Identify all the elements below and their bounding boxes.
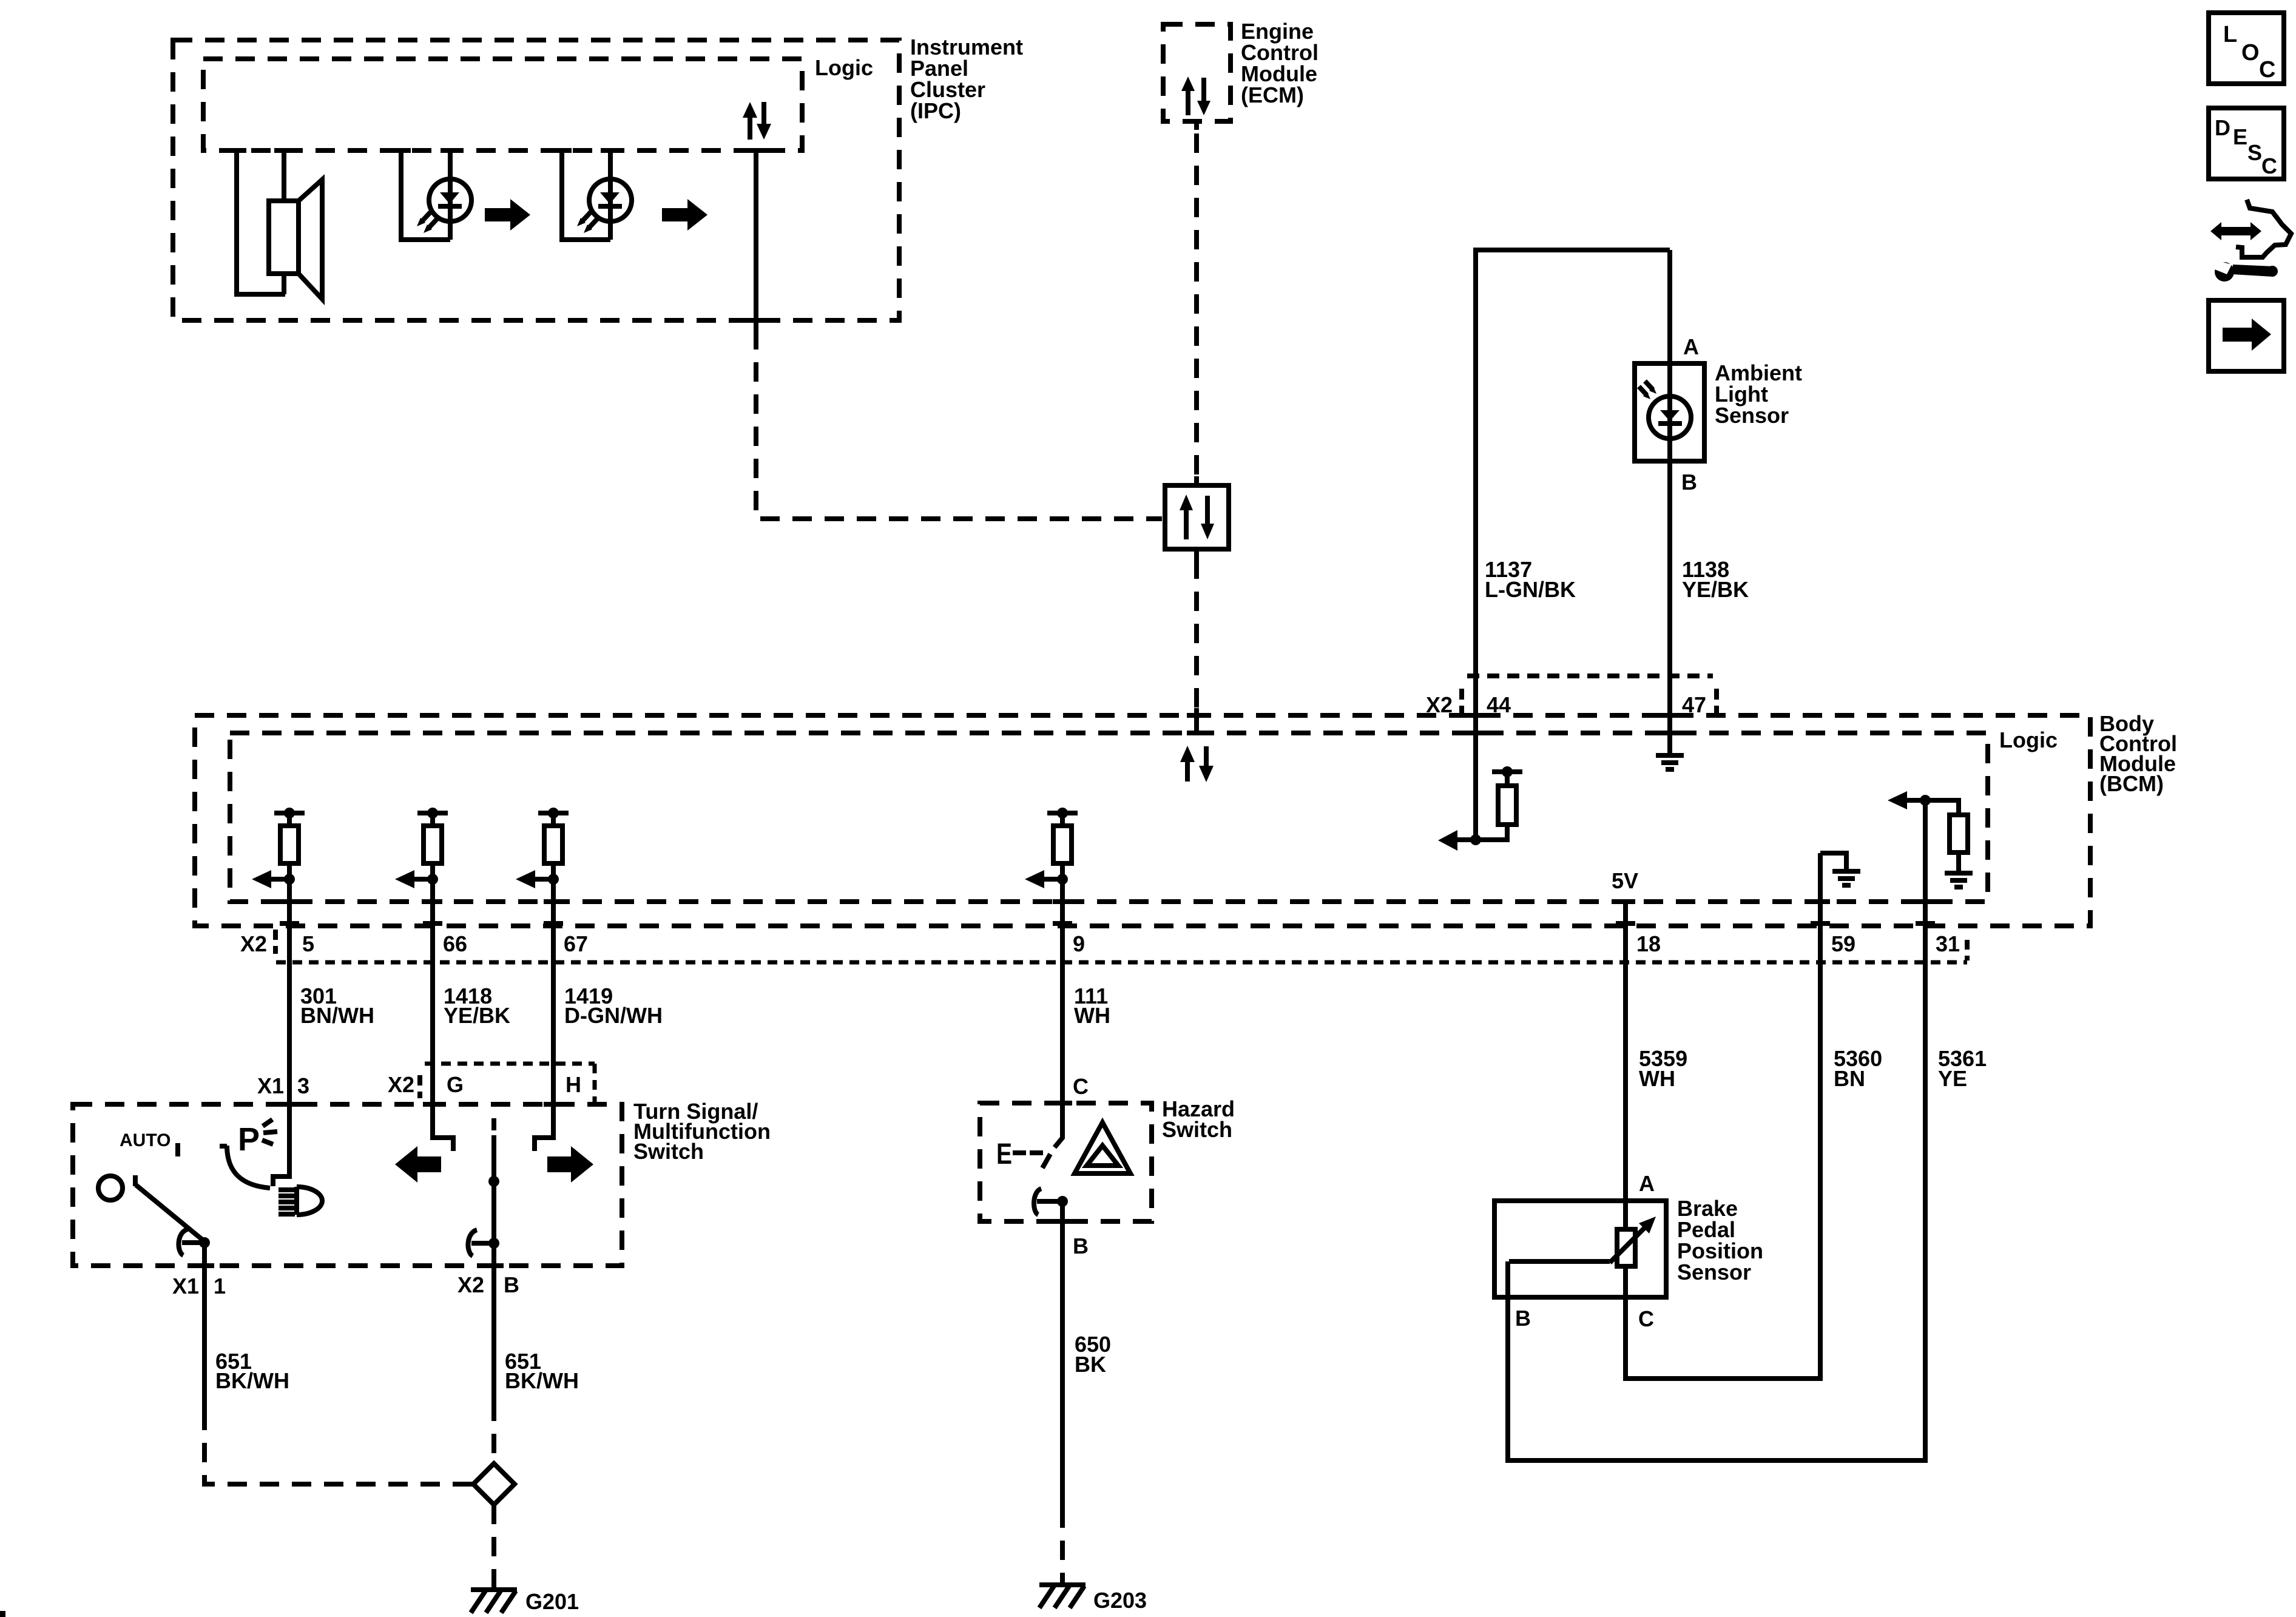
- Engine Control Module (ECM) box: [1163, 24, 1231, 121]
- svg-text:1: 1: [214, 1274, 226, 1298]
- svg-text:D: D: [2215, 115, 2230, 140]
- wire gateway to BCM stub: [1194, 549, 1199, 559]
- svg-text:A: A: [1683, 334, 1699, 359]
- svg-text:A: A: [1639, 1171, 1655, 1196]
- left turn signal driver resistor: [430, 813, 435, 826]
- BCM bottom pin row: [240, 930, 1967, 962]
- svg-text:111WH: 111WH: [1074, 984, 1110, 1028]
- wire 1418 YE/BK: [433, 863, 453, 1151]
- left turn signal driver output arrow: [414, 877, 433, 882]
- AUTO position tick: [175, 1143, 180, 1156]
- svg-text:C: C: [1073, 1074, 1089, 1099]
- svg-text:O: O: [2241, 40, 2260, 66]
- svg-text:C: C: [1638, 1306, 1654, 1331]
- svg-text:H: H: [566, 1072, 581, 1097]
- headlamp switch blade: [135, 1175, 204, 1241]
- IPC serial data up/down arrows: [743, 102, 771, 140]
- wire 651 BK/WH left: [202, 1243, 207, 1411]
- BCM serial data up/down arrows: [1180, 746, 1214, 782]
- svg-text:650BK: 650BK: [1075, 1332, 1111, 1377]
- indicator output arrow right: [662, 199, 707, 231]
- right turn arrow: [547, 1146, 593, 1183]
- potentiometer: [1617, 1201, 1635, 1297]
- left turn driver supply bar: [274, 811, 305, 815]
- parking lamp rays: [262, 1119, 277, 1144]
- BCM X2 connector row 44/47: [1426, 676, 1717, 717]
- pull-down resistor (brake pedal position input): [1925, 800, 1973, 887]
- icon wrench: [2215, 261, 2278, 282]
- ambient light input arrow: [1457, 837, 1476, 842]
- svg-text:18: 18: [1636, 931, 1661, 956]
- wire 5360 BN: [1626, 853, 1820, 1379]
- svg-text:9: 9: [1073, 931, 1085, 956]
- svg-text:E: E: [996, 1138, 1012, 1170]
- BCM Logic box: [230, 733, 1988, 902]
- wire gateway to BCM (dashed): [1194, 559, 1199, 708]
- svg-text:5V: 5V: [1612, 868, 1638, 893]
- Hazard Switch box: [980, 1103, 1152, 1221]
- Instrument Panel Cluster (IPC) box: [173, 40, 899, 320]
- wire 111 WH: [1060, 863, 1065, 1139]
- svg-text:X2: X2: [240, 931, 267, 956]
- right turn signal driver output arrow: [535, 877, 553, 882]
- potentiometer wiper arrow: [1509, 1217, 1656, 1263]
- hazard warning triangle: [1075, 1122, 1130, 1173]
- left turn signal driver supply bar: [417, 811, 448, 815]
- hazard switch blade: [1042, 1137, 1063, 1168]
- IPC Logic box: [203, 59, 802, 150]
- svg-text:E: E: [2233, 124, 2247, 149]
- page artifact dot: [0, 1611, 5, 1617]
- svg-text:C: C: [2259, 57, 2275, 83]
- svg-text:3: 3: [297, 1073, 309, 1098]
- svg-text:B: B: [1073, 1234, 1089, 1258]
- pull-up resistor (ambient light input): [1476, 766, 1522, 840]
- svg-text:31: 31: [1936, 931, 1960, 956]
- svg-text:B: B: [1515, 1306, 1531, 1331]
- wire IPC serial data (solid): [754, 150, 758, 330]
- gateway up/down arrows: [1180, 495, 1214, 539]
- wire 5361 YE: [1508, 800, 1925, 1460]
- svg-text:S: S: [2247, 140, 2262, 165]
- svg-text:X2: X2: [458, 1272, 484, 1297]
- wire 1137 L-GN/BK: [1476, 250, 1670, 840]
- hazard E dashes: [1013, 1150, 1043, 1155]
- speaker (chime): [237, 151, 322, 299]
- indicator output arrow left: [485, 199, 530, 231]
- wire ECM serial data stub: [1194, 121, 1199, 130]
- svg-text:AUTO: AUTO: [120, 1130, 171, 1150]
- wire 1138 YE/BK upper: [1667, 250, 1672, 365]
- wire 651 BK/WH right: [491, 1243, 496, 1402]
- svg-text:B: B: [504, 1272, 519, 1297]
- wire splice to G201: [491, 1505, 496, 1588]
- icon LOC box: [2209, 13, 2284, 84]
- wire crossing ticks: [195, 150, 1935, 1266]
- ground G203: [1039, 1585, 1086, 1608]
- wire 301 BN/WH: [273, 863, 289, 1186]
- icon connector outline: [2236, 200, 2291, 257]
- icon DESC box: [2209, 108, 2284, 179]
- turn switch common pole: [488, 1118, 499, 1243]
- svg-text:G201: G201: [525, 1589, 579, 1614]
- Brake Pedal Position Sensor box: [1494, 1201, 1666, 1297]
- left turn driver output arrow: [271, 877, 289, 882]
- park switch lever arc: [220, 1146, 270, 1188]
- turn indicator LED right: [562, 150, 632, 240]
- hazard switch driver output arrow: [1044, 877, 1062, 882]
- ground return (pin 59 internal): [1820, 853, 1860, 885]
- ground G201: [471, 1590, 517, 1613]
- wire 5V reference (to pin 18): [1623, 902, 1628, 1201]
- ambient light sensor photodiode: [1639, 363, 1691, 462]
- turn switch common contact: [468, 1230, 499, 1256]
- svg-text:HazardSwitch: HazardSwitch: [1162, 1096, 1235, 1142]
- wire stub into gateway: [1194, 476, 1199, 485]
- headlamp switch contact circle: [98, 1176, 123, 1200]
- svg-text:X1: X1: [257, 1073, 284, 1098]
- svg-text:B: B: [1681, 470, 1697, 495]
- hazard switch contact: [1034, 1189, 1068, 1215]
- icon arrow: [2223, 319, 2271, 351]
- wire stub crossing BCM edge: [1194, 708, 1199, 733]
- right turn signal driver supply bar: [538, 811, 569, 815]
- headlamp switch common contact: [178, 1229, 210, 1255]
- serial data gateway box: [1165, 485, 1229, 549]
- hazard switch driver resistor: [1060, 813, 1065, 826]
- wire 1138 YE/BK lower: [1667, 462, 1672, 754]
- right turn signal driver resistor: [551, 813, 556, 826]
- ECM serial data up/down arrows: [1181, 76, 1210, 115]
- wire IPC serial data (dashed): [756, 330, 1162, 519]
- svg-text:66: 66: [443, 931, 467, 956]
- left turn arrow: [395, 1146, 441, 1183]
- svg-text:Logic: Logic: [1999, 727, 2058, 752]
- svg-text:P: P: [238, 1121, 260, 1158]
- svg-text:Logic: Logic: [815, 55, 873, 80]
- wire 1419 D-GN/WH: [535, 863, 553, 1151]
- brake pedal input arrow: [1906, 798, 1925, 803]
- turn indicator LED left: [401, 150, 471, 240]
- icon arrow box: [2209, 300, 2284, 371]
- icon connector double arrow: [2210, 222, 2261, 240]
- svg-text:X1: X1: [172, 1274, 199, 1298]
- svg-text:L: L: [2223, 22, 2237, 47]
- Body Control Module (BCM) box: [195, 715, 2090, 926]
- Ambient Light Sensor box: [1635, 363, 1704, 461]
- splice diamond: [473, 1463, 515, 1505]
- svg-text:X2: X2: [388, 1072, 414, 1097]
- svg-text:67: 67: [564, 931, 588, 956]
- Turn Signal / Multifunction Switch box: [73, 1104, 622, 1266]
- svg-text:5: 5: [302, 931, 314, 956]
- connector row X2 pins G H: [388, 1064, 595, 1103]
- svg-text:C: C: [2261, 154, 2277, 178]
- svg-text:59: 59: [1831, 931, 1855, 956]
- wire ECM serial data (dashed): [1194, 133, 1199, 476]
- ground (BCM pin 47 internal): [1656, 755, 1684, 769]
- svg-text:G203: G203: [1093, 1588, 1147, 1613]
- left turn driver resistor: [287, 813, 292, 826]
- svg-text:G: G: [447, 1072, 464, 1097]
- wire 650 BK: [1060, 1201, 1065, 1508]
- headlamp symbol: [279, 1187, 322, 1215]
- hazard switch driver supply bar: [1047, 811, 1078, 815]
